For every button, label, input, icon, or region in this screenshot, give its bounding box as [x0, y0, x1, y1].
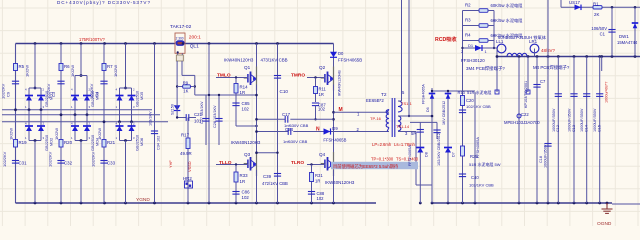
svg-text:US17: US17 [569, 0, 581, 5]
svg-text:D6: D6 [426, 107, 430, 112]
svg-text:2: 2 [461, 50, 463, 54]
svg-text:C12: C12 [556, 125, 560, 132]
svg-text:D0: D0 [338, 51, 344, 56]
svg-text:IKW40N120H3: IKW40N120H3 [224, 58, 254, 63]
svg-text:YGND: YGND [136, 197, 150, 203]
svg-text:C17: C17 [282, 112, 291, 117]
svg-text:103/1KV: 103/1KV [149, 111, 153, 126]
svg-text:Q4: Q4 [319, 152, 326, 157]
svg-text:473/1KV CBB: 473/1KV CBB [261, 58, 288, 63]
svg-text:R21: R21 [107, 140, 116, 145]
svg-text:15MA4744: 15MA4744 [617, 40, 638, 45]
svg-text:1K/2W: 1K/2W [54, 128, 59, 140]
svg-text:C86: C86 [242, 190, 251, 195]
svg-text:51R 水泥电阻 5W: 51R 水泥电阻 5W [469, 161, 501, 167]
svg-text:1K: 1K [183, 89, 188, 94]
svg-text:R4: R4 [465, 33, 471, 38]
svg-text:QL1: QL1 [190, 44, 199, 50]
svg-text:FFSH4065A: FFSH4065A [422, 84, 426, 104]
svg-text:C33: C33 [107, 161, 116, 166]
svg-text:102/2KV: 102/2KV [91, 151, 96, 167]
svg-text:102/2KV: 102/2KV [2, 151, 7, 167]
svg-text:472/1KV CBB: 472/1KV CBB [262, 181, 288, 186]
svg-text:C20: C20 [466, 98, 474, 103]
svg-text:MD5: MD5 [139, 92, 144, 100]
svg-text:R20: R20 [64, 140, 73, 145]
svg-text:FFSH4065B: FFSH4065B [323, 138, 346, 143]
svg-text:DW1: DW1 [619, 34, 629, 39]
svg-text:102: 102 [317, 196, 325, 201]
svg-text:FFSH30120: FFSH30120 [461, 58, 485, 63]
svg-text:HR2: HR2 [183, 176, 192, 181]
svg-text:N: N [316, 127, 320, 133]
svg-text:TAK17-02: TAK17-02 [170, 24, 192, 30]
svg-text:MPEH103J3A0700: MPEH103J3A0700 [504, 120, 540, 125]
svg-text:FFSH4065A: FFSH4065A [476, 137, 480, 158]
svg-text:RCD吸收: RCD吸收 [435, 35, 457, 43]
svg-text:102: 102 [318, 107, 326, 112]
svg-text:1K/2W: 1K/2W [9, 128, 14, 140]
svg-text:目前使用磁芯为EE65*2 5.5uh期待: 目前使用磁芯为EE65*2 5.5uh期待 [333, 163, 399, 170]
svg-text:C10: C10 [280, 89, 289, 94]
svg-text:C1: C1 [600, 32, 606, 37]
svg-text:102: 102 [242, 107, 250, 112]
svg-text:51R 水泥电阻: 51R 水泥电阻 [467, 89, 491, 95]
svg-text:R3: R3 [465, 18, 471, 23]
svg-text:102/2KV: 102/2KV [46, 83, 51, 99]
svg-text:1R: 1R [240, 179, 246, 184]
svg-text:FFSH4065B: FFSH4065B [338, 58, 362, 63]
svg-text:MD6: MD6 [139, 138, 144, 146]
svg-text:R2: R2 [465, 3, 471, 8]
svg-text:1K/2W: 1K/2W [70, 65, 75, 77]
svg-text:YHF: YHF [168, 160, 173, 168]
svg-text:Q1: Q1 [244, 65, 251, 70]
svg-text:C22: C22 [521, 112, 529, 117]
svg-text:C28 103/1KV: C28 103/1KV [213, 105, 217, 128]
svg-text:1: 1 [485, 50, 487, 54]
svg-text:D9: D9 [332, 126, 338, 131]
svg-text:3M4 PCB焊接端子?: 3M4 PCB焊接端子? [466, 65, 505, 72]
svg-text:C18: C18 [539, 156, 543, 163]
svg-text:102/1KV CBB/2512: 102/1KV CBB/2512 [437, 133, 441, 166]
svg-text:FFSH4065A: FFSH4065A [408, 145, 412, 166]
svg-text:60HB6127-310UH 铁氧体: 60HB6127-310UH 铁氧体 [498, 34, 547, 41]
svg-text:C3: C3 [51, 91, 56, 97]
svg-text:R9: R9 [183, 80, 189, 85]
svg-text:1R: 1R [240, 90, 246, 95]
svg-text:C7: C7 [540, 79, 546, 84]
svg-text:2 300: 2 300 [176, 37, 184, 41]
svg-text:TS1-1: TS1-1 [401, 101, 413, 106]
svg-text:R14: R14 [240, 85, 249, 90]
svg-text:106/50V: 106/50V [591, 26, 607, 31]
svg-text:R13: R13 [458, 90, 466, 95]
svg-text:C31: C31 [19, 161, 28, 166]
svg-text:C4: C4 [94, 91, 99, 97]
svg-text:1R: 1R [319, 92, 324, 97]
svg-text:IKW40N120H3: IKW40N120H3 [231, 140, 261, 145]
svg-text:1000UF/350V: 1000UF/350V [544, 144, 548, 168]
svg-text:102/2KV: 102/2KV [48, 151, 53, 167]
svg-text:M4 PCB焊接端子?: M4 PCB焊接端子? [533, 64, 570, 71]
svg-text:MD2: MD2 [49, 138, 54, 146]
svg-text:EE65B*2: EE65B*2 [366, 98, 384, 103]
svg-text:D1: D1 [468, 43, 474, 48]
svg-text:1K/2W: 1K/2W [97, 128, 102, 140]
svg-text:R17: R17 [181, 133, 190, 138]
svg-text:1nf630V CBB: 1nf630V CBB [283, 139, 308, 144]
svg-text:200:1: 200:1 [189, 34, 201, 40]
svg-text:TP=0.1*300: TP=0.1*300 [371, 157, 394, 162]
svg-text:1K/2W: 1K/2W [25, 65, 30, 77]
svg-text:TS1-14: TS1-14 [396, 124, 410, 129]
svg-text:S2150: S2150 [171, 104, 175, 115]
svg-text:IKW40N120HB: IKW40N120HB [338, 70, 342, 96]
svg-text:60K/5w 水泥电阻: 60K/5w 水泥电阻 [491, 2, 524, 9]
svg-text:102/2KV: 102/2KV [89, 83, 94, 99]
svg-text:60K/5w 水泥电阻: 60K/5w 水泥电阻 [491, 17, 524, 24]
svg-text:Q2: Q2 [319, 65, 326, 70]
svg-text:R11: R11 [319, 87, 327, 92]
svg-text:KP103/TQ/2001: KP103/TQ/2001 [524, 81, 528, 108]
svg-text:R31: R31 [315, 173, 323, 178]
svg-text:102/2KV: 102/2KV [1, 83, 6, 99]
svg-text:1KV CBB/2512: 1KV CBB/2512 [442, 101, 446, 125]
svg-text:R33: R33 [240, 173, 249, 178]
svg-text:R1: R1 [593, 2, 599, 7]
svg-text:102: 102 [242, 195, 250, 200]
svg-text:IKW40N120H3: IKW40N120H3 [325, 180, 355, 185]
svg-text:Q3: Q3 [244, 152, 251, 157]
svg-text:TP-16: TP-16 [370, 116, 382, 121]
svg-text:TLRO: TLRO [291, 160, 304, 166]
svg-text:VSSD: VSSD [187, 161, 192, 172]
svg-text:D8: D8 [425, 152, 429, 157]
svg-text:1R: 1R [315, 179, 320, 184]
svg-text:LP=2.6mh: LP=2.6mh [372, 142, 392, 147]
svg-text:C9: C9 [6, 91, 11, 97]
svg-text:TLLO: TLLO [219, 160, 232, 166]
svg-text:1K/2W: 1K/2W [113, 65, 118, 77]
svg-text:OGND: OGND [597, 221, 612, 226]
svg-text:1000u/40s*?: 1000u/40s*? [605, 82, 609, 103]
svg-text:C13: C13 [572, 125, 576, 132]
svg-text:102/1KV CBB: 102/1KV CBB [469, 183, 494, 188]
svg-text:Ls=1.78mh: Ls=1.78mh [394, 142, 416, 147]
svg-text:C15: C15 [598, 125, 602, 132]
svg-text:C32: C32 [64, 161, 73, 166]
svg-text:102/1KV CBB: 102/1KV CBB [466, 104, 491, 109]
svg-text:C39: C39 [263, 174, 272, 179]
svg-text:C14: C14 [585, 125, 589, 132]
svg-text:D7: D7 [452, 152, 456, 157]
svg-text:C34 102: C34 102 [157, 136, 161, 150]
svg-text:TMRO: TMRO [291, 73, 305, 79]
svg-text:C85: C85 [242, 101, 251, 106]
svg-text:2K: 2K [594, 12, 599, 17]
svg-text:175R/100TV?: 175R/100TV? [79, 37, 106, 42]
svg-text:R19: R19 [19, 140, 28, 145]
svg-text:C27 103/1KV: C27 103/1KV [200, 101, 204, 124]
svg-text:DC+430V(pbsy)? DC330V-537V?: DC+430V(pbsy)? DC330V-537V? [57, 0, 150, 5]
svg-text:49.9R: 49.9R [180, 151, 192, 156]
